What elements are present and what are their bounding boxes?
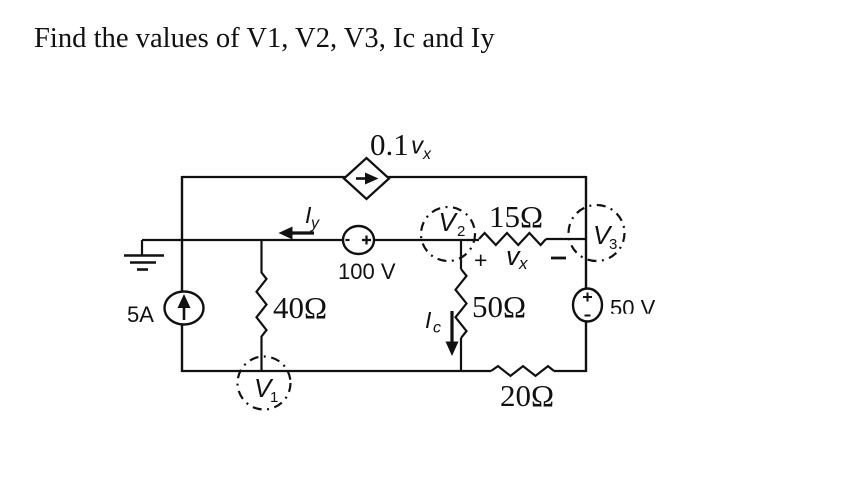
label minus of vx [551, 257, 566, 260]
svg-text:0.1: 0.1 [370, 127, 409, 162]
ground [124, 240, 164, 270]
resistor R15 horizontal 15ohm [479, 233, 546, 245]
label 0.1vx [370, 127, 432, 163]
svg-text:50Ω: 50Ω [472, 289, 526, 324]
label V2 [439, 207, 466, 240]
resistor R40 vertical 40ohm [257, 240, 267, 371]
wire top left horizontal [182, 176, 345, 178]
resistor R20 horizontal 20ohm [491, 366, 554, 376]
wire bottom horizontal right [554, 370, 587, 372]
svg-text:x: x [518, 254, 528, 273]
wire right vertical lower [585, 321, 587, 372]
svg-text:5A: 5A [127, 302, 154, 327]
arrow Ic [446, 311, 459, 356]
svg-text:15Ω: 15Ω [489, 199, 543, 234]
svg-text:+: + [474, 247, 487, 273]
svg-text:I: I [425, 307, 432, 333]
wire 50ohm branch bottom [460, 338, 462, 371]
voltage source V100 circle [343, 226, 374, 254]
voltage source V50 circle [573, 289, 602, 322]
wire mid horizontal right of 100V [374, 239, 479, 241]
label V3 [593, 220, 617, 253]
dependent source U1 diamond 0.1vx [344, 158, 389, 199]
label Iy [305, 202, 320, 232]
svg-text:Find the values of V1, V2, V3,: Find the values of V1, V2, V3, Ic and Iy [34, 23, 495, 54]
svg-text:3: 3 [609, 236, 617, 253]
wire 50ohm branch top [460, 239, 462, 269]
label Ic [425, 307, 441, 337]
svg-text:x: x [422, 146, 432, 163]
svg-text:y: y [310, 215, 320, 232]
wire left vertical lower [181, 324, 183, 372]
wire mid horizontal right of 15ohm [546, 238, 586, 240]
svg-text:V: V [439, 207, 459, 237]
node V3 dashed circle [569, 205, 625, 261]
label vx [506, 241, 528, 273]
label 50 V (clipped bottom) [610, 296, 656, 321]
wire bottom horizontal left [181, 370, 491, 372]
svg-text:2: 2 [457, 223, 465, 240]
wire right vertical upper [585, 176, 587, 289]
wire top right horizontal [388, 176, 586, 178]
current source I1 5A [165, 292, 204, 325]
svg-text:20Ω: 20Ω [500, 378, 554, 413]
svg-text:100 V: 100 V [338, 259, 396, 284]
label V1 [254, 373, 278, 406]
svg-text:1: 1 [270, 389, 278, 406]
node V2 dashed circle [421, 207, 475, 261]
svg-text:50 V: 50 V [610, 296, 656, 321]
svg-text:40Ω: 40Ω [273, 290, 327, 325]
wire left vertical upper [181, 176, 183, 292]
wire mid horizontal left [142, 239, 343, 241]
arrow Iy [279, 227, 315, 240]
resistor R50 vertical 50ohm [456, 269, 467, 338]
svg-text:c: c [433, 320, 441, 337]
node V1 dashed circle [238, 357, 291, 410]
